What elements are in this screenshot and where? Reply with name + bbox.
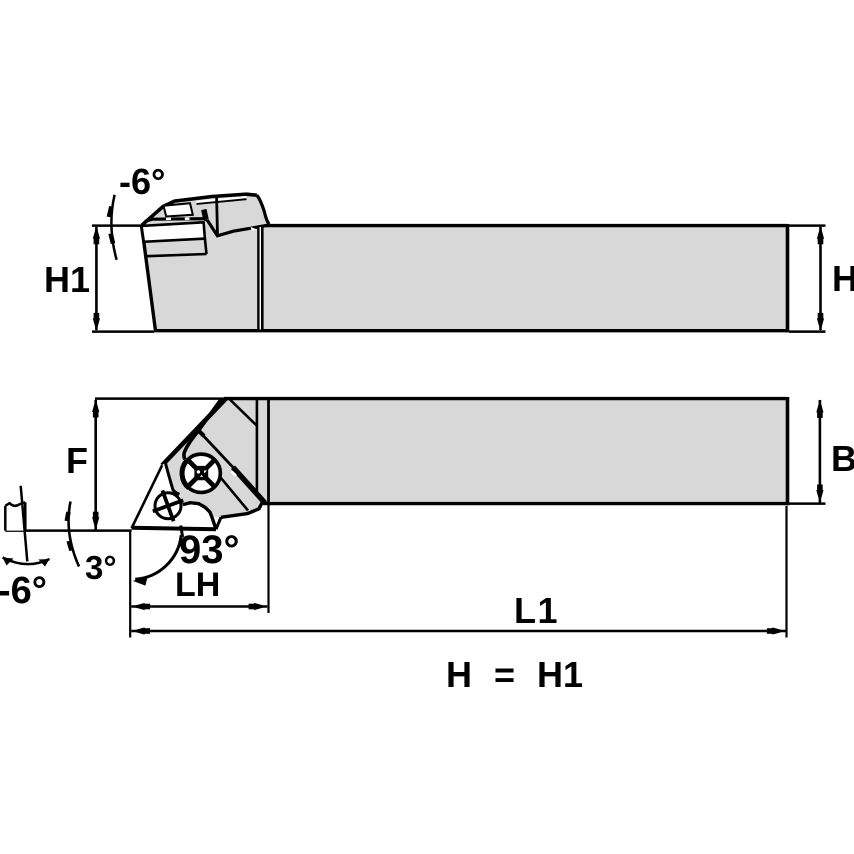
svg-text:B: B xyxy=(831,438,854,479)
svg-text:-6°: -6° xyxy=(0,570,47,612)
svg-text:H: H xyxy=(832,258,854,299)
svg-text:-6°: -6° xyxy=(119,161,165,202)
svg-text:F: F xyxy=(66,440,88,481)
svg-text:H1: H1 xyxy=(44,259,90,300)
svg-text:L1: L1 xyxy=(514,590,559,631)
svg-text:H = H1: H = H1 xyxy=(446,654,583,695)
svg-text:3°: 3° xyxy=(85,549,117,586)
svg-text:93°: 93° xyxy=(179,528,240,572)
